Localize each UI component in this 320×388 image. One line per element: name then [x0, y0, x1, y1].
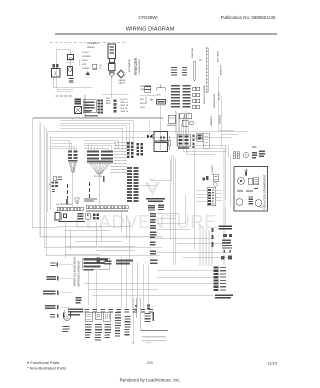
- svg-text:GRN: GRN: [85, 112, 90, 114]
- harness fan wedge 1: [69, 162, 76, 172]
- lower-left group G3: [43, 291, 58, 296]
- wedge1 leads: [51, 140, 77, 151]
- right stacked box RB1a: [154, 132, 168, 142]
- svg-text:BRN 12: BRN 12: [121, 102, 129, 104]
- svg-text:CONTROL: CONTROL: [212, 164, 214, 175]
- interconnect block CN3: [177, 134, 190, 146]
- wire main horizontal y87.7: [53, 88, 92, 92]
- top dotted label row: [50, 41, 125, 43]
- relay cluster a: [148, 205, 155, 211]
- svg-text:HTR: HTR: [82, 64, 87, 66]
- wire highlighted drop center: [171, 160, 213, 266]
- microtext col b: [95, 324, 102, 341]
- FF lamp 1: [238, 178, 245, 185]
- small marks left: [52, 189, 55, 192]
- tiny glyph: [66, 199, 68, 204]
- FF door connector group 2 lamp: [243, 152, 248, 157]
- gray dashes bottom right: [142, 336, 166, 341]
- outline far right: [204, 133, 210, 148]
- svg-text:FRESH FOOD COMPARTMENT: FRESH FOOD COMPARTMENT: [264, 174, 267, 209]
- svg-text:BLU 14: BLU 14: [121, 99, 129, 101]
- ice maker head B5: [109, 64, 116, 71]
- wedge tip leads: [73, 172, 99, 206]
- dispenser small box: [55, 213, 60, 221]
- wire pair right of K blocks: [85, 95, 86, 118]
- microtext col d: [115, 312, 121, 337]
- corner run right: [141, 298, 168, 331]
- light socket hatch: [69, 79, 74, 82]
- small cluster below cols: [76, 297, 82, 303]
- dark dash vertical: [152, 312, 154, 321]
- FF thermostat stem: [245, 169, 248, 177]
- right mid cluster rows: [221, 234, 232, 260]
- svg-text:ICE MKR: ICE MKR: [82, 56, 91, 58]
- wire upper bundle bends: [176, 112, 227, 154]
- right col marks: [211, 228, 213, 247]
- control board box: [83, 100, 96, 113]
- small mark below wedge2: [103, 176, 105, 182]
- svg-text:THERM: THERM: [82, 68, 90, 70]
- wire nested top 2: [51, 137, 233, 210]
- J-block connector: [127, 167, 139, 202]
- svg-text:THERMOSTAT: THERMOSTAT: [213, 93, 216, 108]
- board block M1 left: [68, 151, 77, 162]
- FF fan motor: [255, 200, 262, 207]
- terminal strip C2: [137, 143, 143, 156]
- label rows mid-left: [144, 86, 151, 90]
- wire center steps to stack: [157, 214, 230, 258]
- right stacked box RB1b: [154, 143, 168, 152]
- svg-text:CFD28WI: CFD28WI: [138, 15, 157, 20]
- aux box right: [197, 133, 203, 141]
- FF connector group 4 labels: [259, 151, 265, 157]
- board label below: [85, 115, 98, 116]
- terminal strip TS2: [86, 206, 128, 209]
- wire highlighted FF drop: [224, 150, 231, 266]
- ground glyph cluster: [147, 305, 150, 310]
- terminal block K2: [75, 107, 82, 114]
- bottom connector glyph row: [85, 309, 154, 313]
- svg-text:WIRING: WIRING: [87, 47, 95, 49]
- wire nested run 2: [44, 126, 162, 247]
- freezer light bulb: [68, 67, 73, 76]
- freezer fan box: [157, 100, 166, 105]
- terminal strip C1: [127, 142, 133, 158]
- comp small: [145, 86, 151, 93]
- svg-text:ICE MAKER: ICE MAKER: [87, 42, 99, 45]
- G lead lines: [59, 265, 74, 308]
- CN4 leads: [196, 190, 222, 201]
- mesh components: [97, 258, 134, 265]
- wire center thin bundle: [173, 150, 195, 265]
- wire highlighted drop left: [40, 123, 162, 237]
- ladder strip top-right: [206, 48, 208, 92]
- CN-FF microtext: [220, 267, 226, 291]
- svg-text:DISPENSER HARNESS: DISPENSER HARNESS: [78, 261, 81, 287]
- svg-text:EVAP FAN: EVAP FAN: [191, 48, 194, 58]
- vline with marks: [135, 298, 137, 318]
- cluster E boxes: [179, 114, 185, 119]
- wire nested run 3: [46, 128, 160, 256]
- aux box B3: [93, 64, 97, 69]
- board block M2 wide: [87, 151, 113, 163]
- wire icemaker drop: [102, 77, 129, 99]
- water valve circle: [117, 70, 126, 78]
- arrow lead: [63, 310, 65, 318]
- terminal strip TS1: [57, 207, 83, 211]
- FF resistor comp: [249, 197, 254, 205]
- wire mesh under strips: [57, 211, 135, 260]
- wire highlighted bottom step: [150, 238, 214, 240]
- relay box 2: [96, 312, 102, 320]
- wedge2 extra leads: [89, 143, 98, 151]
- bottom text rows of board: [84, 199, 97, 202]
- wire bus corner left: [32, 118, 58, 228]
- microtext cluster near evap: [171, 67, 187, 76]
- fanout hlines to strips: [110, 142, 127, 173]
- display block label: [84, 259, 109, 271]
- board pin cells: [98, 100, 103, 114]
- wire nested top 1: [48, 132, 249, 213]
- svg-text:WATER SOLENOID VALVE: WATER SOLENOID VALVE: [74, 256, 77, 286]
- microtext col a: [85, 324, 92, 338]
- compressor label 2-row: [219, 226, 233, 230]
- svg-text:WHT: WHT: [140, 103, 145, 105]
- aux comp right of TS1: [78, 213, 84, 219]
- harness fan wedge 2: [89, 163, 110, 174]
- water valve W2 bowtie: [147, 121, 153, 139]
- svg-text:11/10: 11/10: [267, 361, 277, 366]
- microtext col e: [125, 316, 131, 335]
- dotted label row y96: [56, 95, 73, 97]
- svg-text:MTR: MTR: [157, 95, 162, 97]
- small cells comp B: [93, 214, 99, 220]
- wire lower vertical set: [121, 256, 149, 308]
- svg-text:VALVE: VALVE: [119, 82, 126, 85]
- CN3 leads top: [176, 110, 189, 134]
- svg-text:GRN 10: GRN 10: [121, 111, 129, 113]
- defrost microblock D1: [171, 85, 180, 107]
- svg-text:P12 CN1: P12 CN1: [94, 176, 103, 178]
- wire bundle to board upper fan: [60, 121, 133, 151]
- svg-text:2/3: 2/3: [147, 360, 153, 365]
- tiny fan: [75, 198, 80, 204]
- fuse glyph left: [168, 140, 171, 146]
- damper control B4: [108, 44, 116, 59]
- door switch B2: [52, 69, 61, 78]
- svg-text:LEADVENTURE: LEADVENTURE: [75, 211, 217, 232]
- svg-text:Publication No: 5995581138: Publication No: 5995581138: [221, 15, 276, 20]
- svg-text:* Non-Illustrated Parts: * Non-Illustrated Parts: [27, 365, 66, 370]
- svg-text:WHT 18: WHT 18: [121, 105, 129, 107]
- svg-text:HI-LIMIT: HI-LIMIT: [219, 91, 221, 100]
- overload box 1: [85, 312, 93, 321]
- wire freezer light drop: [53, 60, 80, 88]
- terminal block K1: [74, 99, 81, 105]
- svg-text:MOLD: MOLD: [82, 60, 89, 62]
- svg-text:Rendered by LeadVenture, Inc.: Rendered by LeadVenture, Inc.: [120, 378, 181, 383]
- svg-text:ORG: ORG: [140, 107, 145, 109]
- wire L1 top-left supply: [57, 49, 71, 87]
- svg-text:HARNESS: HARNESS: [210, 115, 213, 126]
- cap box 3: [104, 312, 111, 322]
- cells col: [114, 100, 117, 113]
- comp left of CN3: [160, 137, 165, 142]
- lower-left group G4: [45, 305, 59, 310]
- svg-text:AIR DAMPER: AIR DAMPER: [128, 59, 131, 72]
- svg-text:WIRING DIAGRAM: WIRING DIAGRAM: [126, 27, 175, 33]
- wire lower crossings: [84, 271, 213, 313]
- lower-left group G1: [51, 263, 58, 267]
- compressor winding symbol: [64, 313, 71, 321]
- svg-text:FAN: FAN: [150, 99, 154, 102]
- lower-left group G2: [47, 276, 59, 281]
- FF connector group 3: [252, 152, 257, 158]
- TS2 pin row: [86, 211, 128, 212]
- watermark logo: [145, 179, 160, 197]
- wire right bends: [218, 130, 238, 225]
- title rule: [55, 33, 277, 35]
- svg-text:LT BLU: LT BLU: [82, 52, 89, 54]
- damper connector: [110, 59, 115, 63]
- micro col mid: [145, 313, 151, 322]
- svg-text:BLK 16: BLK 16: [121, 108, 129, 110]
- thermal fuse triangle: [86, 72, 90, 76]
- wire bundle lower fan: [84, 141, 119, 151]
- FF switch hatch box: [253, 178, 259, 185]
- display block outline: [83, 258, 109, 269]
- small comp left: [54, 176, 57, 181]
- ice maker fill tube B1: [68, 55, 74, 60]
- lower-left outline: [59, 213, 85, 222]
- svg-text:FREEZER: FREEZER: [134, 57, 138, 75]
- fresh food section box: [234, 167, 268, 212]
- lower-left label block: [68, 309, 83, 316]
- CN-FF 2-line label: [215, 295, 233, 299]
- svg-text:DEF TERM: DEF TERM: [218, 51, 220, 62]
- CN-FF connector column: [213, 267, 218, 292]
- bottom center tick: [146, 341, 151, 344]
- wire marker dashes: [67, 182, 90, 200]
- wire mid horizontal trio: [140, 155, 171, 186]
- svg-text:THERMO: THERMO: [220, 115, 222, 124]
- wire y95 link: [140, 95, 156, 97]
- svg-text:ICE DISPENSER: ICE DISPENSER: [56, 204, 73, 206]
- wire right vertical: [218, 76, 229, 200]
- FF lamp 2: [236, 199, 243, 206]
- FF labels inside: [237, 188, 258, 192]
- wire bottom left drop: [132, 298, 134, 344]
- relay cluster b: [158, 205, 164, 211]
- mid chain comps: [203, 176, 209, 181]
- svg-text:RED: RED: [106, 103, 111, 105]
- switch contacts: [53, 64, 55, 67]
- small box row comp A: [86, 213, 91, 219]
- microtext col c: [105, 324, 112, 338]
- mid-left label stack: [150, 213, 158, 264]
- connector CN4: [207, 188, 216, 206]
- freezer fan bracket: [157, 85, 166, 91]
- svg-text:DEFROST: DEFROST: [221, 64, 223, 75]
- FF tiny label above: [252, 147, 257, 148]
- bottom label tiny: [50, 314, 58, 318]
- svg-text:COMPARTMENT: COMPARTMENT: [138, 58, 141, 75]
- connector pairs D3: [193, 87, 200, 109]
- svg-text:BLK: BLK: [140, 99, 145, 101]
- left connector cluster: [52, 182, 58, 188]
- compressor labels: [63, 326, 70, 332]
- wire main bus highlighted: [33, 117, 163, 119]
- main board label: [146, 198, 165, 202]
- svg-text:DEFROST HEATER: DEFROST HEATER: [203, 85, 206, 104]
- sensor S1: [168, 115, 175, 123]
- CN3 pin row: [178, 147, 189, 149]
- defrost microblock D2: [183, 85, 191, 107]
- col marks right of CN3: [193, 135, 195, 149]
- FF control box: [248, 178, 253, 184]
- svg-text:SENSOR: SENSOR: [167, 125, 176, 127]
- fresh food door connector group 1: [234, 152, 240, 159]
